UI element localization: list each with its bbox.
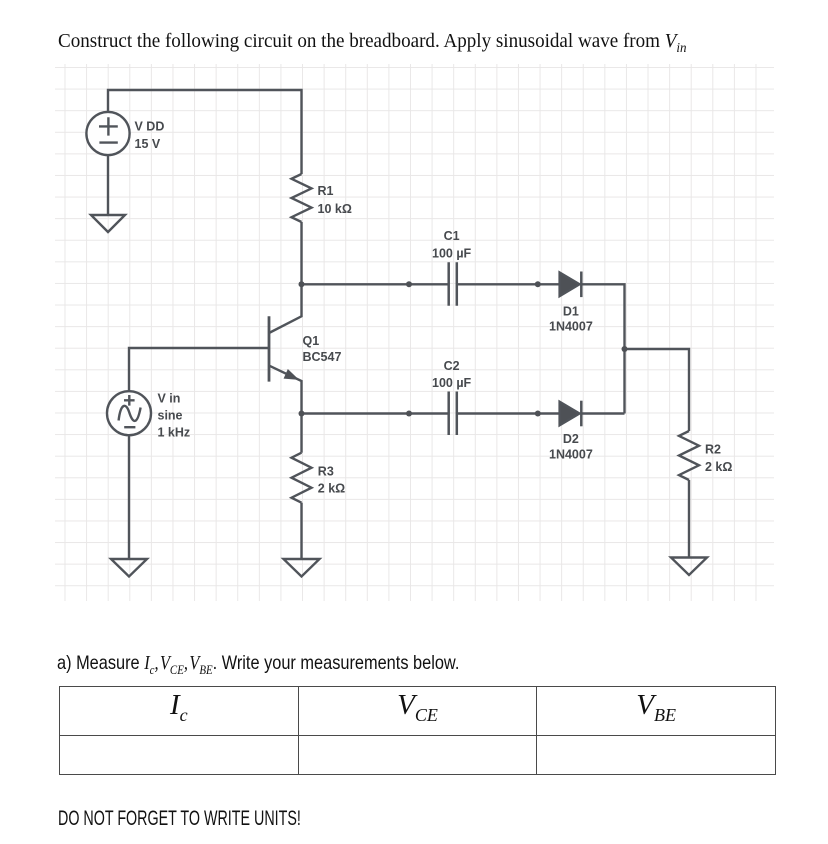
svg-text:V in: V in xyxy=(158,392,181,406)
voltage source Vin (sine) xyxy=(107,391,151,435)
svg-text:2 kΩ: 2 kΩ xyxy=(705,460,732,474)
resistor R3 xyxy=(292,453,312,503)
svg-text:C2: C2 xyxy=(444,359,460,373)
label D1 1N4007 xyxy=(549,304,593,333)
diode D1 xyxy=(560,272,582,298)
wire D2 to right rail xyxy=(581,412,624,414)
svg-text:C1: C1 xyxy=(444,229,460,243)
label V in sine 1 kHz xyxy=(158,392,191,440)
wire C2 to D2 xyxy=(457,412,560,414)
svg-text:100 µF: 100 µF xyxy=(432,247,472,261)
transistor Q1 xyxy=(269,284,302,413)
wire R3 to ground xyxy=(300,503,302,559)
node collector junction xyxy=(299,281,305,287)
wire R1 to collector node xyxy=(300,222,302,284)
title text xyxy=(58,30,687,57)
label V DD 15 V xyxy=(135,119,165,151)
svg-text:1N4007: 1N4007 xyxy=(549,320,593,334)
node wire junction row1 left xyxy=(406,281,412,287)
wire base from Vin to Q1 xyxy=(129,348,269,391)
wire Vin to ground xyxy=(128,435,130,559)
ground (VDD) xyxy=(91,215,125,232)
svg-text:R3: R3 xyxy=(318,465,334,479)
resistor R2 xyxy=(679,431,699,480)
ground (R3) xyxy=(284,559,320,577)
node wire junction row2 right xyxy=(535,411,541,417)
ground (R2) xyxy=(671,558,707,576)
voltage source VDD xyxy=(86,112,129,155)
label D2 1N4007 xyxy=(549,432,593,461)
svg-text:2 kΩ: 2 kΩ xyxy=(318,482,345,496)
svg-text:D2: D2 xyxy=(563,432,579,446)
svg-text:sine: sine xyxy=(158,409,183,423)
wire collector node to C1 xyxy=(302,283,449,285)
capacitor C1 xyxy=(449,262,457,306)
svg-text:V DD: V DD xyxy=(135,119,165,133)
svg-text:R1: R1 xyxy=(318,184,334,198)
node wire junction row2 left xyxy=(406,411,412,417)
units reminder xyxy=(58,807,301,831)
measurements table xyxy=(59,686,776,775)
wire C1 to D1 xyxy=(457,283,560,285)
measure instruction line xyxy=(57,652,459,678)
wire emitter node to C2 xyxy=(302,412,449,414)
wire VDD negative to ground xyxy=(107,155,109,215)
node emitter junction xyxy=(299,411,305,417)
svg-text:10 kΩ: 10 kΩ xyxy=(318,202,352,216)
svg-text:1 kHz: 1 kHz xyxy=(158,426,191,440)
svg-text:Q1: Q1 xyxy=(303,334,320,348)
svg-text:R2: R2 xyxy=(705,443,721,457)
node output junction xyxy=(622,346,628,352)
svg-text:100 µF: 100 µF xyxy=(432,376,472,390)
svg-text:D1: D1 xyxy=(563,304,579,318)
label C2 100 µF xyxy=(432,359,472,390)
svg-text:BC547: BC547 xyxy=(303,350,342,364)
label C1 100 µF xyxy=(432,229,472,261)
capacitor C2 xyxy=(449,392,457,436)
svg-text:15 V: 15 V xyxy=(135,137,161,151)
label Q1 BC547 xyxy=(303,334,342,364)
node wire junction row1 right xyxy=(535,281,541,287)
diode D2 xyxy=(560,401,582,427)
resistor R1 xyxy=(292,174,312,222)
wire top rail from VDD to R1 column xyxy=(108,90,302,174)
ground (Vin) xyxy=(111,559,147,577)
label R3 2 kΩ xyxy=(318,465,345,496)
wire D1 to right rail xyxy=(581,284,624,413)
wire emitter node to R3 xyxy=(300,414,302,453)
wire output node to R2 xyxy=(625,349,690,431)
svg-text:1N4007: 1N4007 xyxy=(549,447,593,461)
wire R2 to ground xyxy=(688,480,690,558)
label R2 2 kΩ xyxy=(705,443,732,475)
label R1 10 kΩ xyxy=(318,184,352,216)
